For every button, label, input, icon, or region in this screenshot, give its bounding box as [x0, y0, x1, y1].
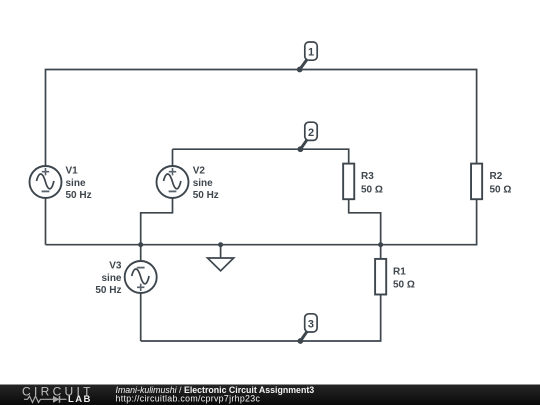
footer bar	[0, 385, 540, 405]
svg-text:V3: V3	[109, 261, 122, 272]
voltage source V1	[30, 166, 62, 198]
wire top loop: V1 top to R2 top	[46, 70, 477, 167]
node 1 flag on top rail	[297, 42, 317, 72]
svg-text:V2: V2	[193, 166, 206, 177]
svg-text:50 Ω: 50 Ω	[393, 280, 415, 291]
svg-text:50 Ω: 50 Ω	[490, 184, 512, 195]
svg-text:50 Hz: 50 Hz	[193, 190, 219, 201]
svg-text:R2: R2	[490, 171, 503, 182]
R2 name/value label	[490, 171, 512, 195]
resistor R3	[343, 164, 354, 200]
svg-text:http://circuitlab.com/cprvp7jr: http://circuitlab.com/cprvp7jrhp23c	[116, 394, 261, 404]
wire mid rail to R2 bottom	[46, 200, 477, 245]
wire: V3 bottom to bottom rail	[140, 293, 142, 341]
svg-text:V1: V1	[66, 166, 79, 177]
junction at ground on mid rail	[218, 242, 223, 247]
junction at R1 top on mid rail	[378, 242, 383, 247]
junction at V3 top on mid rail	[138, 242, 143, 247]
R1 name/value label	[393, 267, 415, 291]
V1 name/value label	[66, 166, 92, 202]
svg-text:R1: R1	[393, 267, 406, 278]
resistor R1	[375, 259, 386, 295]
svg-text:R3: R3	[361, 171, 374, 182]
svg-text:1: 1	[308, 47, 314, 59]
wire bottom rail to R1 bottom	[141, 295, 381, 341]
voltage source V2	[157, 166, 189, 198]
R3 name/value label	[361, 171, 383, 195]
node 3 flag on bottom rail	[298, 314, 318, 344]
voltage source V3 (plus at bottom)	[125, 261, 157, 293]
node 2 flag on V2-R3 wire	[298, 122, 318, 152]
wire: R3 bottom step to mid rail	[349, 200, 381, 245]
svg-text:50 Hz: 50 Hz	[95, 285, 121, 296]
svg-text:sine: sine	[66, 178, 86, 189]
wire: V2 bottom step to V3 top	[141, 198, 173, 261]
ground symbol	[208, 245, 234, 271]
resistor R2	[471, 164, 482, 200]
wire: V1 bottom to mid rail	[45, 198, 47, 245]
V2 name/value label	[193, 166, 219, 202]
wire: R1 top to mid rail	[380, 245, 382, 259]
svg-text:sine: sine	[101, 273, 121, 284]
wire: V2 top to R3 top	[173, 149, 349, 166]
svg-text:3: 3	[308, 318, 314, 330]
footer title text	[116, 385, 315, 404]
footer CircuitLab logo	[22, 385, 94, 405]
V3 name/value label	[95, 261, 122, 297]
svg-text:sine: sine	[193, 178, 213, 189]
svg-text:50 Ω: 50 Ω	[361, 184, 383, 195]
svg-text:2: 2	[308, 127, 314, 139]
svg-text:50 Hz: 50 Hz	[66, 190, 92, 201]
svg-text:LAB: LAB	[68, 394, 92, 405]
